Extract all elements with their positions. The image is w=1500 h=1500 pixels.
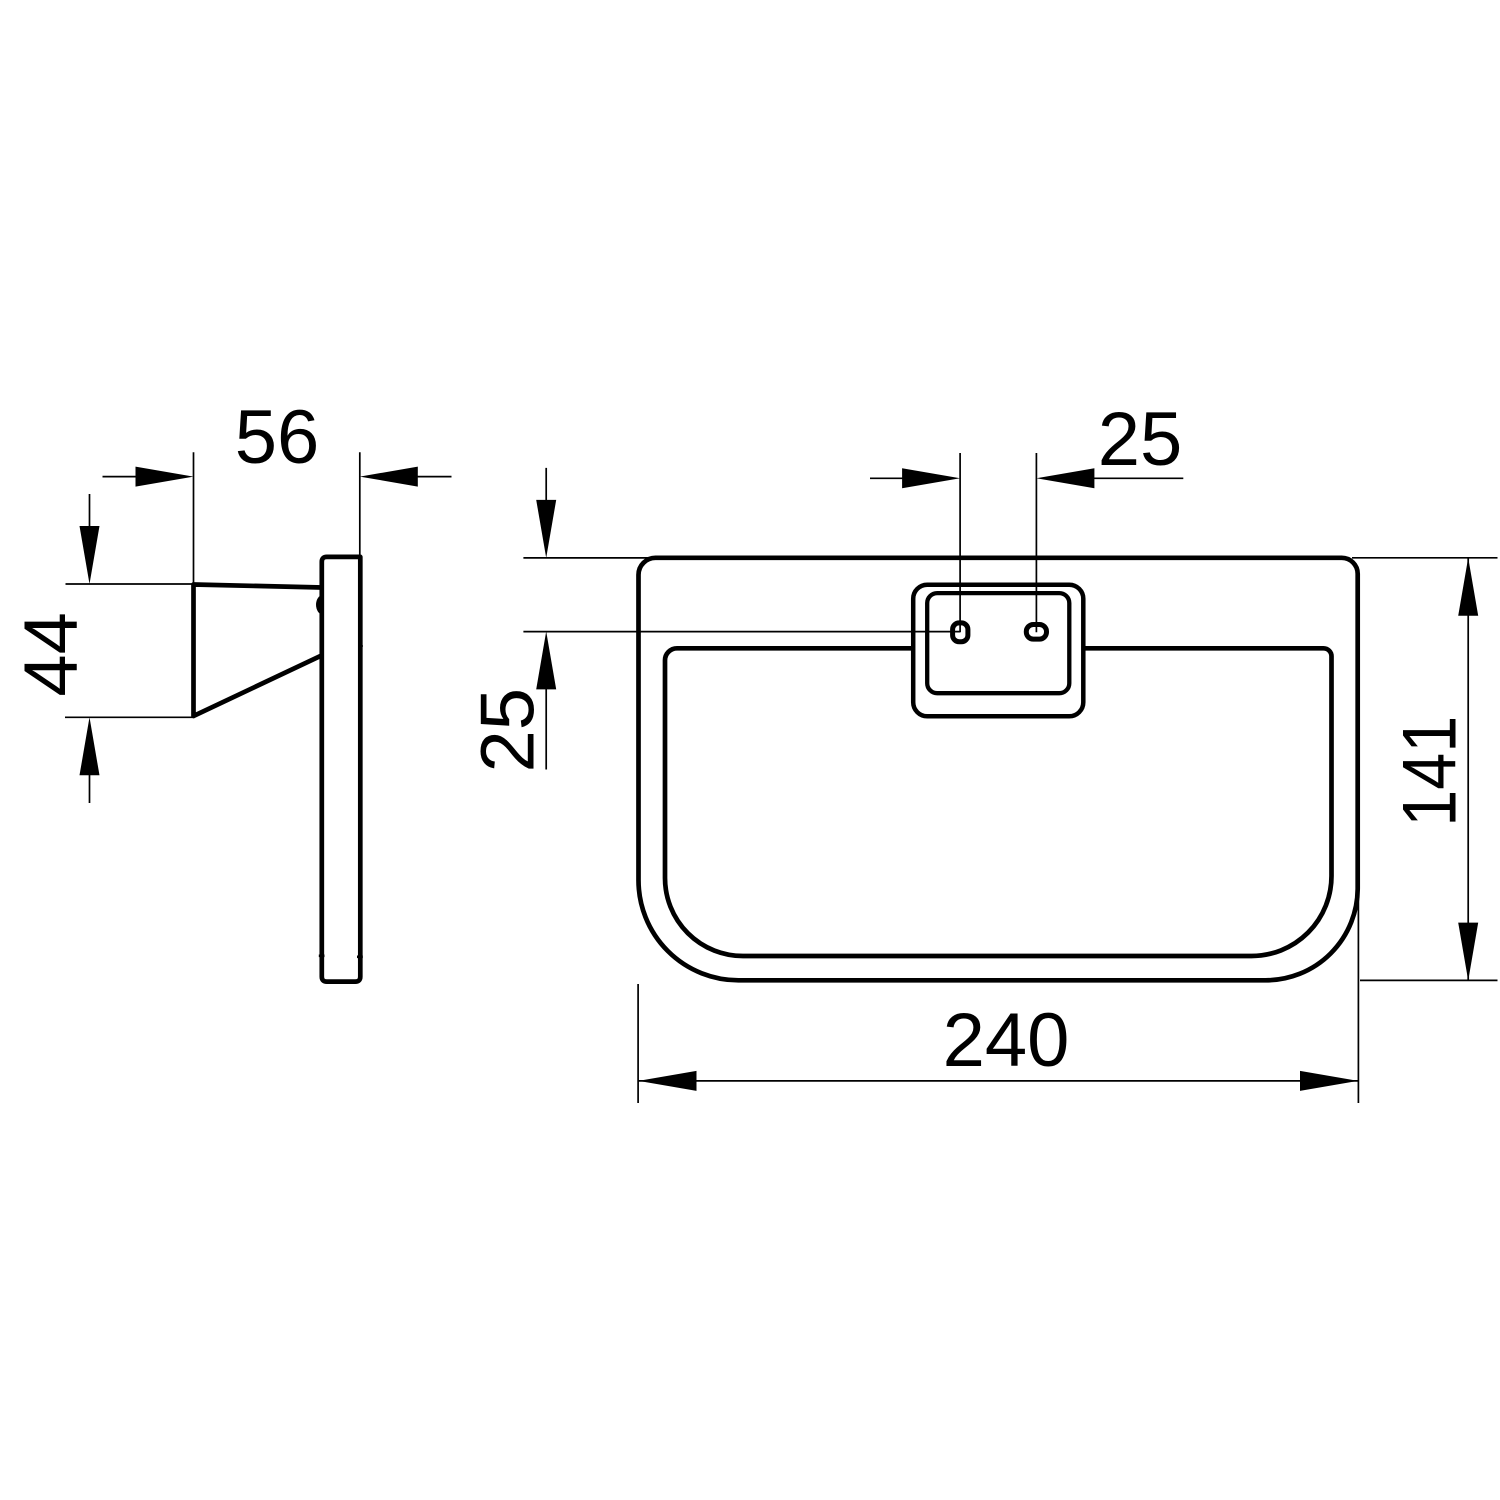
dimension 25 left: top arrow [536, 500, 556, 558]
side view: screw bump on bar left edge [316, 595, 323, 615]
dimension 141: top arrow [1458, 558, 1478, 616]
dimension 56: left arrow [136, 467, 194, 487]
dimension 56: right arrow [360, 467, 418, 487]
dimension 25 left: bottom arrow [536, 631, 556, 689]
side view: ring profile bar [322, 557, 361, 982]
dimension 25 top: hole centre lines [960, 453, 1036, 632]
dimension 56: extension lines [194, 452, 360, 584]
dimension 240: right arrow [1300, 1071, 1358, 1091]
dimension 25 top: right arrow [1036, 468, 1094, 488]
svg-text:56: 56 [235, 395, 320, 480]
dimension 25 top: dim line tails [870, 477, 1183, 479]
dimension 25 left: hole centre line [523, 631, 960, 633]
dimension 141: bottom arrow [1458, 923, 1478, 981]
side view: seam step on bar right edge [359, 645, 363, 647]
front view: mounting plate outer [913, 585, 1083, 717]
front view: screw hole right [1026, 625, 1046, 640]
dimension 240: extension lines [638, 888, 1358, 1103]
svg-text:44: 44 [9, 612, 94, 697]
front view: ring outer outline [639, 558, 1358, 981]
side view: bottom end-cap seam ticks [319, 956, 363, 957]
side view: wall bracket wedge [194, 585, 323, 717]
dimension 44: extension lines [65, 584, 195, 717]
dimension 44: top arrow [80, 526, 100, 584]
svg-text:25: 25 [1098, 397, 1183, 482]
svg-text:240: 240 [943, 998, 1070, 1083]
front view: ring inner outline [665, 648, 1332, 956]
dimension 25 top: left arrow [902, 468, 960, 488]
dimension 141: dim line [1467, 558, 1469, 981]
dimension 240: dim line [639, 1080, 1359, 1082]
svg-text:141: 141 [1388, 716, 1473, 827]
dimension 240: left arrow [639, 1071, 697, 1091]
dimension 44: bottom arrow [80, 717, 100, 775]
dimension 25 left: extension line [523, 557, 650, 559]
dimension 25 left: dim line tails [545, 468, 547, 770]
front view: screw hole left [953, 623, 968, 642]
svg-text:25: 25 [466, 688, 551, 773]
front view: mounting plate inner [927, 593, 1069, 693]
dimension 56: dim line + tails [103, 476, 452, 478]
dimension 141: extension lines [1352, 558, 1498, 981]
dimension 44: dim line tails [89, 494, 91, 803]
